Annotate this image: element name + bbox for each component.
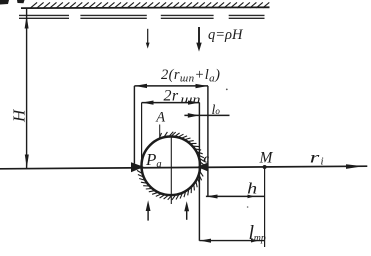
svg-text:M: M [259,149,274,166]
svg-text:h: h [247,181,257,198]
load arrow q [196,27,201,52]
outer dimension line [134,85,208,87]
l_o dimension line [184,114,229,116]
axis line r_i [0,166,367,169]
A leader line [159,125,161,140]
inner dimension right extension line (to l_tr) [198,103,200,241]
circle vertical centerline [170,136,172,204]
l_o dimension arrow [188,113,199,118]
H dimension line (vertical) [26,8,28,168]
bottom arrow right [184,201,189,220]
outer dimension left extension line [133,86,135,164]
svg-text:q=ρH: q=ρH [208,27,244,43]
h dimension line [206,195,265,197]
l_tr dimension line [199,240,264,242]
svg-text:шп: шп [181,92,201,106]
load arrow small [146,29,150,49]
svg-text:c: c [204,152,210,166]
l_tr dimension right arrow [251,239,259,243]
l_tr dimension left arrow [200,239,211,243]
svg-text:A: A [155,110,165,126]
h dimension left arrow [206,195,217,199]
outer dimension right arrow [196,84,208,88]
outer dimension left arrow [135,84,147,88]
inner dimension right arrow [188,101,199,105]
corner mark 2 [17,0,25,3]
svg-text:i: i [321,156,324,168]
inner dimension left extension line [141,103,143,159]
corner mark 1 [0,0,9,5]
svg-text:тр: тр [254,232,266,244]
svg-text:H: H [9,108,28,123]
P_a arrowhead [131,162,144,172]
wall hatching [31,2,270,8]
scan speck 2 [247,206,249,208]
circle hachures lower [137,170,203,200]
M vertical line [264,167,266,247]
point M dot [263,165,267,169]
axis arrowhead [346,164,363,169]
inner dimension line [142,102,200,104]
svg-text:2r: 2r [164,87,179,104]
svg-text:r: r [310,150,321,167]
h dimension right arrow [248,195,256,199]
H dimension arrow down [25,155,29,169]
bottom arrow left [146,200,151,220]
H dimension arrow up [25,16,29,29]
shaft circle [142,137,201,196]
point c arrowhead [197,163,208,172]
inner dimension left arrow [142,101,154,105]
water surface double lines [19,15,265,18]
wall surface line (top) [21,6,270,9]
outer dimension right extension line [207,86,209,196]
circle hachures upper [160,132,205,166]
scan speck 1 [226,89,228,91]
